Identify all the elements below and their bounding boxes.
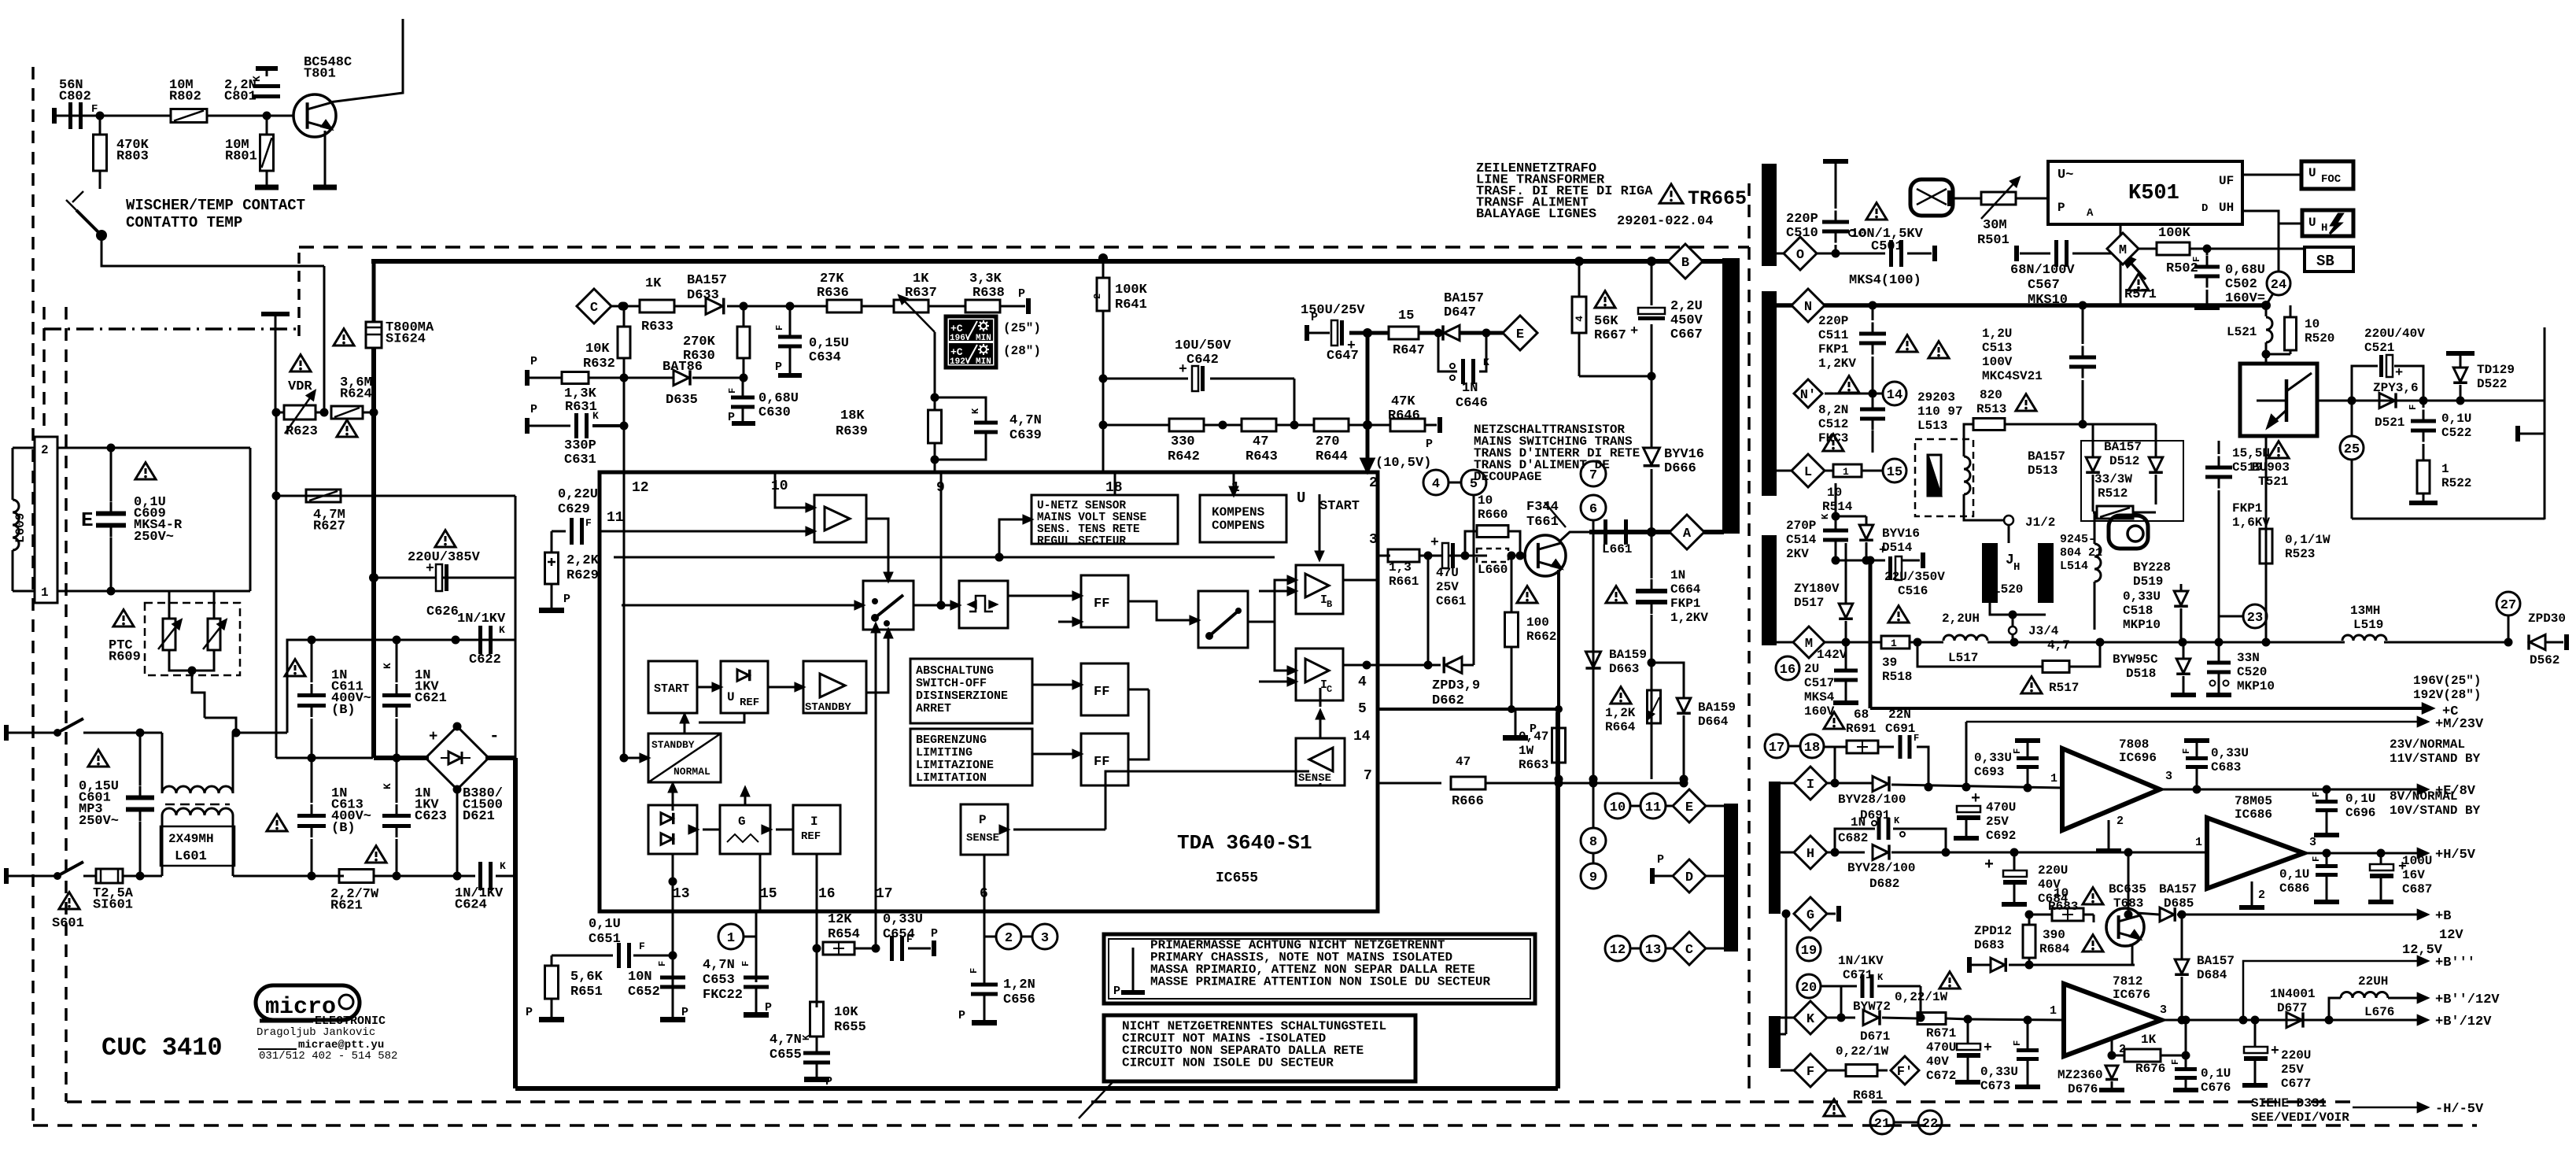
svg-text:SENSE: SENSE — [966, 832, 999, 844]
svg-text:START: START — [654, 682, 689, 696]
svg-text:1W: 1W — [1519, 744, 1534, 758]
warning L row — [1823, 434, 1843, 451]
svg-text:C691: C691 — [1885, 722, 1915, 736]
block amp1 — [814, 495, 866, 542]
svg-text:ZY180V: ZY180V — [1794, 582, 1840, 596]
wire pin2 run — [57, 447, 250, 449]
capacitor C513 — [2069, 356, 2096, 360]
svg-text:R522: R522 — [2441, 476, 2471, 490]
svg-text:K501: K501 — [2128, 182, 2179, 205]
node r641 b — [1099, 421, 1108, 430]
svg-text:D664: D664 — [1698, 715, 1729, 729]
svg-text:D676: D676 — [2068, 1082, 2098, 1096]
svg-text:L514: L514 — [2060, 560, 2088, 573]
svg-text:0,33U: 0,33U — [1974, 751, 2012, 765]
capacitor C626 electrolytic — [436, 564, 442, 591]
svg-text:+M/23V: +M/23V — [2435, 717, 2484, 732]
svg-text:C623: C623 — [415, 809, 447, 824]
circle 19 — [1797, 937, 1821, 961]
node c634 top — [786, 302, 795, 311]
resistor R644 — [1314, 419, 1349, 431]
capacitor C667 — [1638, 308, 1665, 320]
warning L517 — [1888, 606, 1909, 623]
thick bus top — [371, 259, 1724, 264]
svg-text:0,1U: 0,1U — [2279, 867, 2309, 881]
svg-text:P: P — [775, 360, 782, 374]
svg-text:+: + — [1879, 543, 1887, 557]
capacitor C630 — [731, 396, 755, 400]
K501 box — [2048, 161, 2242, 224]
svg-text:C626: C626 — [426, 604, 459, 619]
circle 3 — [1032, 924, 1057, 949]
svg-text:Dragoljub Jankovic: Dragoljub Jankovic — [256, 1026, 375, 1039]
svg-text:15: 15 — [1398, 309, 1414, 323]
svg-text:BA157: BA157 — [2028, 449, 2065, 464]
svg-text:1,6KV: 1,6KV — [2232, 516, 2270, 530]
svg-text:23V/NORMAL: 23V/NORMAL — [2390, 737, 2465, 752]
svg-text:LIMITING: LIMITING — [916, 746, 972, 759]
capacitor C647 — [1331, 320, 1338, 346]
svg-text:F: F — [2311, 792, 2322, 797]
node row540 a — [1219, 421, 1227, 430]
svg-text:(B): (B) — [331, 703, 356, 718]
wire uref standby — [768, 686, 798, 689]
resistor R501 — [1981, 192, 2016, 205]
svg-text:220P: 220P — [1786, 212, 1818, 227]
svg-text:7: 7 — [1364, 768, 1372, 784]
P term C647 — [1305, 325, 1309, 341]
arrow +H/5V — [2418, 849, 2427, 858]
inner dashed border bottom — [67, 1100, 2353, 1103]
capacitor C609 — [96, 512, 126, 516]
svg-text:L519: L519 — [2353, 618, 2383, 632]
svg-text:P: P — [931, 927, 938, 941]
svg-text:C629: C629 — [558, 502, 590, 517]
svg-text:D671: D671 — [1860, 1029, 1890, 1044]
resistor R660 — [1477, 526, 1508, 538]
svg-text:+H/5V: +H/5V — [2435, 848, 2476, 863]
svg-text:031/512 402 - 514 582: 031/512 402 - 514 582 — [259, 1050, 397, 1062]
svg-text:F: F — [774, 325, 785, 331]
warning C626 — [435, 530, 456, 547]
node bridge bot wire — [453, 872, 462, 881]
svg-text:R637: R637 — [905, 286, 937, 301]
wire IC686 out — [2304, 852, 2419, 855]
svg-text:100: 100 — [1526, 615, 1549, 630]
wire FF1 to switch2 — [1128, 601, 1193, 620]
ground T801 emitter — [324, 131, 327, 182]
svg-text:6: 6 — [1589, 502, 1597, 517]
svg-text:3: 3 — [1369, 532, 1378, 548]
svg-text:L513: L513 — [1917, 419, 1947, 433]
wire UF out — [2242, 174, 2301, 176]
svg-text:R671: R671 — [1926, 1026, 1956, 1040]
capacitor C656 — [971, 983, 998, 987]
zener MZ2360 D676 — [2105, 1066, 2118, 1079]
transistor BU903 internal — [2285, 379, 2289, 422]
svg-text:330: 330 — [1171, 434, 1195, 449]
svg-text:1N4001: 1N4001 — [2270, 987, 2316, 1001]
capacitor C672 — [1957, 1044, 1980, 1050]
node n1 — [1869, 301, 1877, 310]
node r654 — [813, 944, 821, 953]
svg-text:0,1/1W: 0,1/1W — [2285, 533, 2331, 547]
svg-text:MKS4(100): MKS4(100) — [1849, 273, 1921, 288]
svg-text:C682: C682 — [1838, 831, 1868, 845]
svg-text:D677: D677 — [2277, 1001, 2307, 1015]
svg-text:BA157: BA157 — [2104, 440, 2142, 454]
J3/4 contact — [2009, 626, 2017, 634]
svg-text:F: F — [657, 961, 668, 966]
svg-text:R646: R646 — [1388, 408, 1420, 423]
svg-text:C639: C639 — [1009, 428, 1042, 443]
wire C521 loop — [2352, 366, 2378, 401]
capacitor C682 — [1877, 818, 1881, 840]
svg-text:5: 5 — [1358, 701, 1367, 717]
svg-text:C513: C513 — [1982, 341, 2012, 355]
svg-text:16: 16 — [1780, 663, 1795, 678]
capacitor C622 — [478, 626, 482, 654]
wire L col — [1835, 483, 1837, 516]
warning BU903 — [2268, 442, 2289, 458]
svg-text:450V: 450V — [1670, 313, 1703, 328]
wire K row — [1781, 1017, 1794, 1019]
wire U START to IB — [1319, 494, 1321, 551]
label C512 — [1839, 376, 1859, 393]
svg-text:10V/STAND BY: 10V/STAND BY — [2390, 804, 2481, 818]
wire G col — [1785, 914, 1788, 1034]
svg-text:68N/100V: 68N/100V — [2010, 263, 2075, 278]
svg-text:ZPD3,9: ZPD3,9 — [1432, 678, 1480, 693]
L513 dashed box — [1915, 439, 1973, 516]
svg-text:T801: T801 — [304, 67, 336, 82]
svg-text:C501: C501 — [1871, 239, 1903, 254]
wire pulse to FF1 — [1008, 595, 1076, 597]
P terminal R638 — [1026, 298, 1031, 314]
svg-text:G: G — [1807, 908, 1814, 923]
wire PSENSE down pin6 — [984, 855, 986, 911]
svg-text:R518: R518 — [1882, 670, 1912, 684]
block ABSCHALTUNG — [910, 659, 1032, 723]
zener ZPD12 D683 — [1991, 958, 2005, 972]
svg-text:100U: 100U — [2402, 854, 2432, 868]
svg-text:D522: D522 — [2477, 377, 2507, 391]
svg-text:T661: T661 — [1526, 515, 1559, 530]
wire C516 row — [1836, 560, 1885, 562]
svg-text:R801: R801 — [225, 150, 257, 164]
svg-text:D684: D684 — [2197, 968, 2227, 982]
svg-text:D682: D682 — [1869, 877, 1899, 891]
svg-text:MZ2360: MZ2360 — [2057, 1068, 2103, 1082]
svg-text:24: 24 — [2271, 278, 2286, 293]
svg-text:1N: 1N — [1851, 815, 1866, 830]
svg-text:R662: R662 — [1526, 630, 1556, 644]
svg-text:C664: C664 — [1670, 582, 1701, 597]
capacitor C623 — [382, 814, 411, 818]
svg-text:1K: 1K — [645, 276, 662, 291]
svg-text:R681: R681 — [1853, 1088, 1883, 1103]
svg-text:14: 14 — [1887, 388, 1902, 403]
svg-text:P: P — [1113, 985, 1120, 998]
wire SENSE to pin7 — [1319, 783, 1322, 785]
wire +B out — [2182, 914, 2419, 916]
bridge rectifier D621 — [426, 726, 489, 789]
svg-text:K: K — [1877, 972, 1884, 983]
capacitor C692 — [1957, 806, 1980, 812]
wire base — [267, 115, 294, 117]
svg-text:C: C — [1685, 943, 1693, 958]
warning SI624 — [334, 329, 354, 346]
node out509 — [2348, 397, 2356, 405]
svg-text:E: E — [81, 508, 94, 532]
svg-text:16V: 16V — [2402, 868, 2425, 882]
node r641 a — [1099, 375, 1108, 383]
wire pin15 down — [755, 937, 758, 982]
diode D647 — [1444, 325, 1460, 340]
node C601 top — [136, 729, 145, 737]
svg-text:D519: D519 — [2133, 575, 2163, 589]
black bar K/F — [1769, 1016, 1781, 1068]
wire amp1 out — [865, 519, 888, 575]
svg-text:192V MIN: 192V MIN — [950, 357, 991, 367]
wire M to r502 — [2139, 248, 2156, 250]
svg-text:11: 11 — [1645, 800, 1661, 815]
svg-text:ABSCHALTUNG: ABSCHALTUNG — [916, 664, 994, 678]
wire K row2 — [1968, 1019, 2064, 1020]
svg-text:-H/-5V: -H/-5V — [2435, 1102, 2484, 1117]
svg-text:E: E — [1685, 800, 1693, 815]
capacitor C514 — [1823, 529, 1848, 533]
svg-text:2U: 2U — [1804, 662, 1819, 676]
svg-text:2KV: 2KV — [1786, 547, 1809, 561]
svg-text:ZPD30: ZPD30 — [2528, 612, 2566, 626]
svg-text:30M: 30M — [1983, 218, 2007, 233]
svg-text:C630: C630 — [758, 405, 791, 420]
svg-text:8: 8 — [1589, 835, 1597, 850]
P gnd C656 — [972, 1020, 997, 1026]
svg-text:C502: C502 — [2225, 277, 2257, 292]
warning 2056 — [1606, 586, 1626, 603]
svg-text:KOMPENS: KOMPENS — [1212, 505, 1265, 519]
bus N row — [1777, 303, 2266, 308]
wire C626 row — [374, 577, 515, 579]
svg-text:P: P — [530, 403, 537, 416]
svg-text:+B′′/12V: +B′′/12V — [2435, 992, 2500, 1007]
svg-text:250V~: 250V~ — [134, 530, 174, 545]
svg-text:2: 2 — [1005, 931, 1013, 946]
svg-text:2X49MH: 2X49MH — [168, 832, 214, 846]
resistor R643 — [1242, 419, 1276, 431]
thick vert x655 — [515, 496, 517, 758]
wire L row — [1777, 470, 1793, 472]
svg-text:SWITCH-OFF: SWITCH-OFF — [916, 677, 987, 690]
section separator dashed — [1747, 183, 1751, 1094]
block STANDBY NORMAL — [648, 734, 721, 782]
svg-text:R517: R517 — [2049, 681, 2079, 695]
resistor R631 — [562, 372, 589, 384]
thick vert x475 — [372, 261, 376, 322]
node r621 right — [393, 872, 401, 881]
svg-text:G: G — [738, 815, 746, 829]
circle 22 — [1918, 1111, 1942, 1134]
circle 14 — [1883, 382, 1906, 405]
svg-text:L517: L517 — [1948, 651, 1978, 665]
wire to T661 base — [1520, 555, 1526, 557]
mains line1 entry — [6, 732, 57, 734]
circle 10 — [1605, 793, 1630, 819]
arrow +C output — [1870, 707, 2422, 710]
svg-text:P: P — [825, 1075, 832, 1088]
svg-text:FKP1: FKP1 — [1818, 342, 1848, 357]
wire pin6 down — [984, 911, 986, 978]
label R667 — [1595, 291, 1615, 308]
svg-text:F: F — [2408, 405, 2419, 410]
svg-text:STANDBY: STANDBY — [651, 739, 695, 751]
pointer line netzschalt — [1544, 502, 1566, 527]
wire IREF down pin16 — [816, 854, 818, 911]
P ground pin5 row — [1515, 709, 1517, 735]
capacitor C601 — [126, 796, 154, 800]
wire pin17 down — [875, 911, 877, 948]
black bar M — [1762, 535, 1777, 645]
svg-text:U~: U~ — [2057, 168, 2073, 183]
svg-text:19: 19 — [1801, 944, 1817, 959]
outer dashed border left — [31, 67, 35, 1125]
svg-text:2: 2 — [1369, 475, 1378, 491]
resistor R624 — [331, 406, 363, 419]
svg-text:B: B — [1327, 599, 1332, 610]
svg-text:C677: C677 — [2281, 1077, 2311, 1091]
node PTC — [232, 729, 241, 737]
node d647 r — [1482, 329, 1491, 338]
svg-text:1N: 1N — [1670, 568, 1685, 582]
wire into switch1 — [622, 604, 858, 607]
svg-text:D662: D662 — [1432, 693, 1464, 708]
svg-text:25V: 25V — [1986, 815, 2009, 829]
circle 18 — [1800, 734, 1824, 758]
diode D633 — [706, 298, 722, 315]
svg-text:2: 2 — [2117, 815, 2124, 828]
wire pin7 r666 — [1378, 782, 1441, 785]
diamond N node — [1792, 289, 1825, 322]
svg-text:ZPD12: ZPD12 — [1974, 924, 2012, 938]
diode D685 — [2160, 907, 2174, 922]
svg-text:100K: 100K — [2158, 226, 2191, 241]
node c802-r803 — [96, 112, 105, 120]
svg-text:MKP10: MKP10 — [2123, 618, 2161, 632]
svg-text:CUC 3410: CUC 3410 — [101, 1033, 223, 1062]
svg-text:1,2N: 1,2N — [1003, 977, 1035, 992]
svg-text:D663: D663 — [1609, 662, 1639, 676]
svg-text:1: 1 — [2441, 462, 2449, 476]
resistor R664 — [1648, 690, 1661, 723]
svg-text:C517: C517 — [1804, 676, 1834, 690]
resistor R642 — [1169, 419, 1204, 431]
svg-text:REF: REF — [801, 830, 821, 843]
svg-text:D512: D512 — [2109, 454, 2139, 468]
diamond K node — [1794, 1001, 1827, 1034]
svg-text:(10,5V): (10,5V) — [1375, 456, 1431, 471]
R517 loop — [1917, 642, 2043, 667]
capacitor C691 — [1899, 735, 1902, 759]
wire pin16 down — [816, 911, 818, 1007]
thick mains y963 — [374, 756, 429, 760]
svg-text:F: F — [639, 941, 645, 952]
wire 6 down — [1592, 520, 1595, 779]
svg-text:+B′′′: +B′′′ — [2435, 955, 2475, 970]
svg-text:10U/50V: 10U/50V — [1175, 338, 1231, 353]
warning S601 — [59, 892, 79, 909]
svg-text:BA157: BA157 — [2197, 954, 2235, 968]
wire pin17 riser — [875, 630, 877, 911]
ground R801 — [266, 178, 268, 187]
warning box PRIMAERMASSE — [1104, 934, 1535, 1003]
svg-text:0,22U: 0,22U — [558, 487, 598, 502]
wire nprime — [1825, 393, 1882, 395]
amplifier 7808 IC696 — [2062, 748, 2160, 830]
warning R621 — [366, 846, 386, 863]
wire row816 cont — [2014, 641, 2183, 644]
svg-text:FF: FF — [1094, 685, 1109, 700]
block double diode — [648, 805, 697, 854]
svg-text:+: + — [1984, 856, 1994, 874]
svg-text:U: U — [2308, 166, 2316, 180]
svg-text:0,1U: 0,1U — [2345, 792, 2375, 806]
diode BA159 D663 — [1585, 652, 1600, 667]
P term C631 — [525, 418, 530, 434]
capacitor C673 — [2017, 1048, 2039, 1052]
svg-text:REGUL SECTEUR: REGUL SECTEUR — [1037, 535, 1126, 548]
svg-text:L676: L676 — [2364, 1005, 2394, 1019]
svg-text:R647: R647 — [1393, 343, 1425, 358]
svg-text:9: 9 — [1589, 870, 1597, 885]
diode BA159 D664 — [1677, 698, 1691, 712]
node B bus — [1574, 257, 1584, 266]
wire frame D512/R512 — [2081, 441, 2183, 521]
arrow +M/23V — [1966, 721, 2419, 723]
resistor R637 pot — [894, 300, 928, 312]
svg-text:2: 2 — [41, 443, 49, 457]
JH transformer right bar — [2038, 543, 2054, 603]
svg-text:D514: D514 — [1882, 541, 1913, 555]
block FF2 — [1081, 663, 1128, 715]
svg-text:29203: 29203 — [1917, 390, 1955, 405]
svg-text:10: 10 — [1610, 800, 1626, 815]
svg-text:R520: R520 — [2305, 331, 2334, 346]
wire to IB 2 — [1259, 590, 1290, 593]
svg-text:C647: C647 — [1327, 349, 1359, 364]
circle 12 — [1605, 936, 1630, 961]
svg-text:1,2KV: 1,2KV — [1818, 357, 1856, 371]
block G — [720, 805, 770, 854]
diode BYW95C D518 — [2176, 659, 2190, 673]
diode 1N4001 D677 — [2286, 1012, 2302, 1027]
PTC dashed box — [145, 603, 240, 675]
resistor R651 — [545, 966, 559, 999]
micro electronic logo — [256, 985, 360, 1020]
svg-text:R639: R639 — [836, 424, 868, 439]
node d633 — [740, 302, 748, 311]
switch S601a — [57, 719, 83, 733]
svg-text:270K: 270K — [683, 334, 716, 349]
svg-text:J1/2: J1/2 — [2025, 516, 2055, 530]
svg-text:C567: C567 — [2028, 278, 2060, 293]
switch S601b — [57, 862, 83, 876]
svg-text:DISINSERZIONE: DISINSERZIONE — [916, 689, 1008, 703]
svg-text:C802: C802 — [59, 90, 91, 105]
wire ABS to FF2 — [1032, 684, 1076, 686]
svg-text:C676: C676 — [2201, 1081, 2231, 1095]
